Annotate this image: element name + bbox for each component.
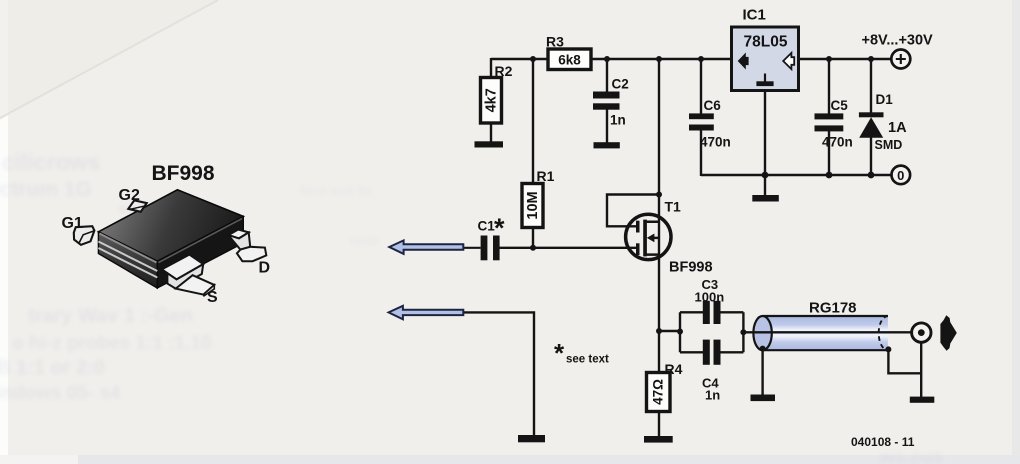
svg-text:+8V...+30V: +8V...+30V bbox=[862, 33, 934, 49]
svg-text:*: * bbox=[554, 338, 565, 368]
transistor package body bbox=[98, 190, 243, 288]
wire top rail right bbox=[799, 58, 892, 60]
junction C5 top bbox=[826, 56, 832, 62]
wire input row to C1 bbox=[463, 247, 481, 249]
wire C6 column bbox=[700, 59, 702, 176]
label D1 current bbox=[888, 120, 907, 136]
svg-text:BF998: BF998 bbox=[152, 162, 215, 185]
svg-text:R1: R1 bbox=[537, 168, 555, 184]
wire coax braid left to ground bbox=[761, 349, 763, 395]
capacitor C3 bbox=[703, 301, 721, 324]
label C5 bbox=[831, 98, 849, 113]
wire C5 column bbox=[828, 59, 830, 175]
junction C3 C4 left bbox=[677, 329, 683, 335]
label R3 bbox=[546, 34, 564, 50]
label C5 value bbox=[822, 135, 853, 150]
package lead G2 bbox=[128, 200, 146, 212]
wire C3 C4 branch left bbox=[680, 312, 703, 352]
figure number bbox=[851, 435, 915, 449]
svg-text:1n: 1n bbox=[705, 388, 720, 403]
junction D1 bottom bbox=[868, 172, 875, 179]
svg-text:BF998: BF998 bbox=[669, 260, 713, 276]
ghost bleed-through text (decorative) bbox=[0, 149, 943, 464]
package pin label D bbox=[259, 259, 271, 276]
svg-text:see text: see text bbox=[566, 354, 609, 366]
ground coax braid left bbox=[751, 395, 776, 402]
wire C2 column bbox=[606, 59, 608, 144]
junction braid left bbox=[760, 346, 766, 352]
svg-text:78L05: 78L05 bbox=[744, 34, 788, 51]
junction D1 top bbox=[868, 56, 874, 62]
svg-text:R4: R4 bbox=[665, 361, 683, 377]
label C4 bbox=[702, 376, 719, 391]
label C3 value bbox=[695, 290, 725, 305]
ground R2 bbox=[475, 141, 504, 147]
svg-text:1n: 1n bbox=[610, 113, 626, 128]
transistor package BF998 title bbox=[152, 162, 215, 185]
capacitor C6 bbox=[689, 113, 714, 130]
svg-text:R2: R2 bbox=[495, 63, 513, 79]
ground R4 bbox=[644, 436, 673, 443]
svg-text:D1: D1 bbox=[876, 92, 894, 107]
svg-text:47Ω: 47Ω bbox=[650, 379, 665, 405]
ground output connector bbox=[910, 397, 935, 403]
junction C6 top bbox=[698, 56, 704, 62]
label supply voltage bbox=[862, 33, 934, 49]
junction braid right bbox=[885, 346, 891, 352]
input arrow lower bbox=[389, 306, 464, 320]
svg-text:4k7: 4k7 bbox=[483, 88, 499, 112]
svg-text:100n: 100n bbox=[695, 290, 725, 305]
diode D1 bbox=[859, 112, 884, 138]
svg-text:0: 0 bbox=[897, 168, 904, 183]
package pin label S bbox=[207, 289, 218, 306]
label R2 bbox=[495, 63, 513, 79]
wire drain column bbox=[658, 59, 660, 331]
svg-text:SMD: SMD bbox=[875, 138, 903, 152]
wire arrow2 to ground bbox=[463, 312, 534, 435]
wire top rail left bbox=[491, 58, 732, 60]
wire coax braid right to ground bbox=[888, 342, 921, 397]
svg-text:o hi-z probes 1:1 :1.10: o hi-z probes 1:1 :1.10 bbox=[12, 333, 212, 354]
junction C2 top bbox=[604, 56, 610, 62]
junction C3 C4 right bbox=[740, 329, 746, 335]
svg-text:T1: T1 bbox=[665, 199, 682, 215]
label C2 bbox=[612, 77, 629, 92]
wire C3 C4 branch right bbox=[720, 312, 743, 352]
capacitor C2 bbox=[593, 92, 620, 110]
input arrow upper bbox=[389, 240, 463, 254]
transistor T1 bbox=[626, 214, 671, 259]
label R4 bbox=[665, 361, 683, 377]
svg-text:G2: G2 bbox=[119, 187, 140, 204]
label T1 bbox=[665, 199, 682, 215]
coax cable RG178 bbox=[753, 316, 888, 350]
label C3 bbox=[702, 277, 719, 292]
wire R1 column bbox=[532, 59, 534, 248]
voltage regulator IC1 bbox=[732, 27, 799, 91]
label D1 bbox=[876, 92, 894, 107]
svg-text:*: * bbox=[494, 213, 505, 243]
svg-text:G1: G1 bbox=[62, 215, 83, 232]
label C2 value bbox=[610, 113, 626, 128]
svg-text:RG178: RG178 bbox=[809, 300, 857, 317]
junction IC1 ground rail bbox=[762, 172, 769, 179]
junction R1 gate bbox=[530, 245, 536, 251]
package lead D bbox=[228, 230, 266, 262]
svg-text:C6: C6 bbox=[704, 98, 722, 113]
junction drain top bbox=[656, 56, 662, 62]
wire gate1 row bbox=[500, 247, 640, 249]
label T1 type BF998 bbox=[669, 260, 713, 276]
resistor R4 bbox=[647, 373, 671, 412]
wire gate2 loop bbox=[607, 195, 659, 227]
svg-text:C1: C1 bbox=[478, 219, 496, 234]
svg-text:restt: restt bbox=[350, 233, 379, 248]
wire IC1 ground pin bbox=[764, 90, 766, 196]
resistor R1 bbox=[522, 184, 543, 228]
svg-text:S: S bbox=[207, 289, 218, 306]
svg-text:10M: 10M bbox=[525, 191, 541, 219]
label C1 asterisk bbox=[494, 213, 505, 243]
svg-text:C2: C2 bbox=[612, 77, 629, 92]
junction C5 bottom bbox=[826, 172, 833, 179]
label C6 bbox=[704, 98, 722, 113]
svg-text:470n: 470n bbox=[822, 135, 853, 150]
label C6 value bbox=[700, 135, 731, 150]
package pin label G1 bbox=[62, 215, 83, 232]
svg-text:470n: 470n bbox=[700, 135, 731, 150]
resistor R2 bbox=[481, 78, 502, 124]
wire R4 column bbox=[658, 331, 660, 437]
resistor R3 bbox=[548, 49, 591, 70]
label C1 bbox=[478, 219, 496, 234]
svg-text:ltem and tlo: ltem and tlo bbox=[300, 183, 373, 198]
terminal 0V bbox=[892, 166, 911, 185]
wire D1 column bbox=[870, 59, 872, 175]
wire source node row bbox=[659, 330, 680, 332]
package lead S bbox=[162, 255, 215, 296]
ground C2 bbox=[594, 142, 620, 148]
svg-text:1A: 1A bbox=[888, 120, 907, 136]
label D1 SMD bbox=[875, 138, 903, 152]
ground input arrow2 bbox=[518, 435, 545, 442]
package lead G1 bbox=[74, 226, 95, 245]
output connector bbox=[912, 323, 931, 342]
label RG178 bbox=[809, 300, 857, 317]
wire bottom rail bbox=[701, 174, 892, 176]
capacitor C5 bbox=[815, 113, 844, 131]
svg-text:6k8: 6k8 bbox=[558, 52, 581, 67]
svg-text:D: D bbox=[259, 259, 271, 276]
label C4 value bbox=[705, 388, 720, 403]
svg-text:ectrum 1G: ectrum 1G bbox=[0, 178, 92, 201]
capacitor C4 bbox=[703, 340, 721, 365]
label IC1 bbox=[743, 7, 766, 24]
wire coax center conductor bbox=[743, 331, 911, 333]
note see text bbox=[554, 338, 609, 368]
supply terminal plus bbox=[891, 50, 910, 69]
svg-text:040108 - 11: 040108 - 11 bbox=[851, 435, 915, 449]
svg-text:ws.cus: ws.cus bbox=[879, 447, 943, 464]
capacitor C1 bbox=[481, 236, 500, 261]
wire R2 column bbox=[490, 58, 492, 143]
svg-text:B 1:1 or 2:0: B 1:1 or 2:0 bbox=[0, 357, 105, 379]
ground supply rail bbox=[752, 195, 779, 202]
junction gate2 drain bbox=[656, 192, 662, 198]
junction R1 top bbox=[530, 56, 536, 62]
junction source node bbox=[656, 328, 662, 334]
output arrow symbol bbox=[940, 315, 956, 351]
package pin label G2 bbox=[119, 187, 140, 204]
svg-text:trary Wav 1 :-Gen: trary Wav 1 :-Gen bbox=[28, 305, 193, 327]
svg-text:R3: R3 bbox=[546, 34, 564, 50]
label R1 bbox=[537, 168, 555, 184]
svg-text:C5: C5 bbox=[831, 98, 849, 113]
svg-text:IC1: IC1 bbox=[743, 7, 766, 24]
svg-text:indows 05- s4: indows 05- s4 bbox=[0, 383, 121, 404]
svg-text:cilicrows: cilicrows bbox=[2, 149, 100, 175]
